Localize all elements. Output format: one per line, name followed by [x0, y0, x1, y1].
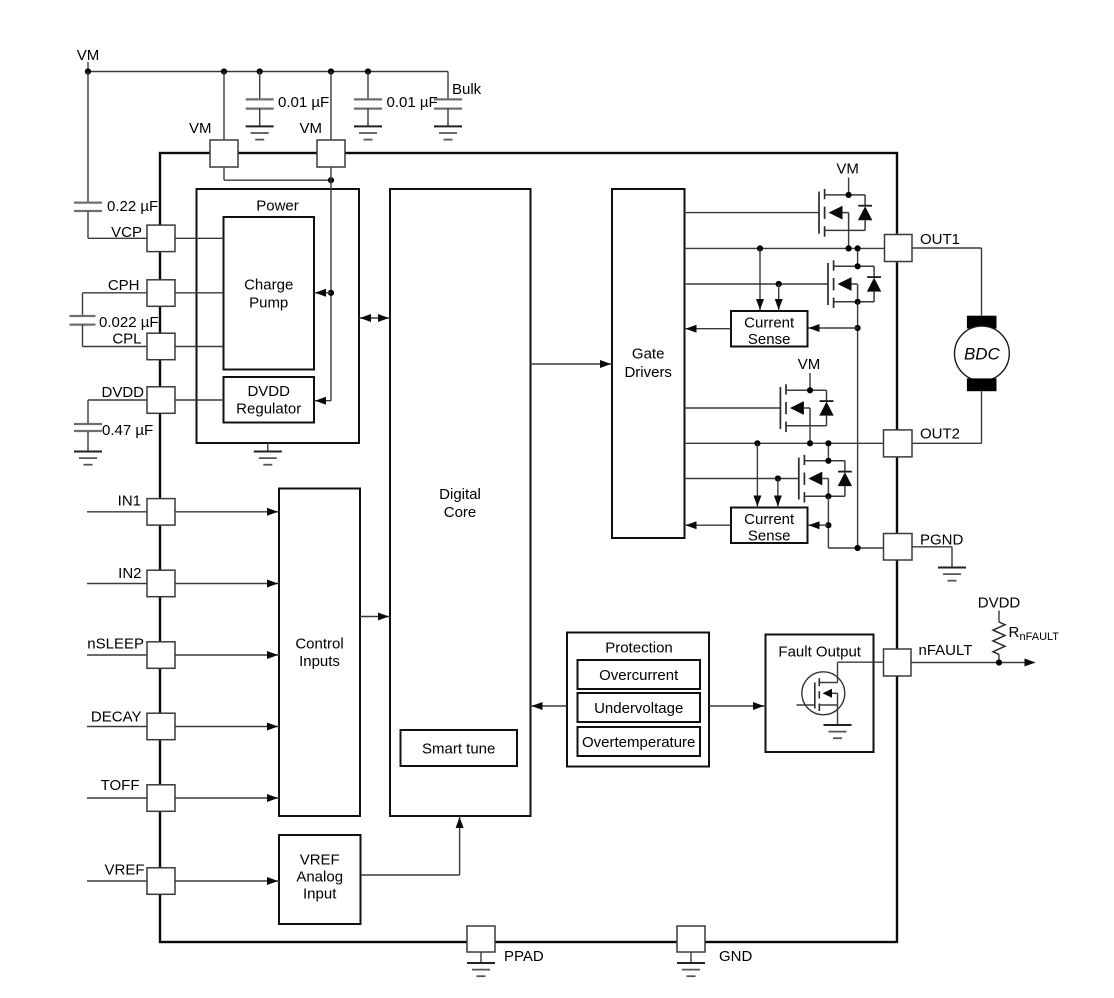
wire IN2 to Control block arrow: [175, 583, 279, 585]
wire VM stub to Q1 drain: [848, 178, 850, 195]
pin PPAD: [467, 926, 495, 952]
junction Q4 drain: [825, 458, 831, 464]
pin VCP: [147, 225, 175, 252]
svg-text:0.01 µF: 0.01 µF: [387, 94, 438, 111]
svg-text:OUT1: OUT1: [920, 231, 960, 248]
block Power: [197, 189, 360, 443]
wire CPL external: [82, 325, 84, 347]
ground under Power block: [254, 452, 282, 465]
block Undervoltage: [578, 693, 701, 722]
capacitor C4 0.22 uF: [74, 203, 102, 211]
junction Q2 source: [855, 299, 861, 305]
wire nSLEEP external stub: [87, 654, 147, 656]
junction gate tap Q2: [776, 281, 782, 287]
wire OUT2 net: [685, 442, 884, 444]
wire VM label stub: [87, 62, 89, 72]
svg-text:VM: VM: [836, 160, 859, 177]
capacitor C1 0.01 uF lead: [259, 72, 261, 100]
capacitor C3 bulk lead: [447, 72, 449, 100]
junction gate tap Q4: [775, 475, 781, 481]
wire + arrow into DVDD Regulator: [314, 400, 331, 402]
capacitor C6 0.47 uF: [74, 424, 102, 431]
wire PGND net: [828, 547, 883, 549]
block VREF Analog Input: [279, 835, 361, 924]
wire Q1 source to OUT1: [848, 230, 850, 248]
block Current Sense 2: [731, 508, 808, 544]
svg-text:Sense: Sense: [748, 528, 791, 545]
wire top VM rail: [88, 71, 448, 73]
svg-text:VCP: VCP: [111, 224, 142, 241]
svg-text:nFAULT: nFAULT: [1020, 631, 1060, 643]
capacitor C3 bulk: [434, 99, 462, 108]
wire DigitalCore to GateDrivers arrow: [531, 363, 613, 365]
svg-text:Control: Control: [295, 636, 343, 653]
wire DVDD pin to DVDD Regulator: [175, 399, 224, 401]
wire gate drive low-side Q2: [685, 283, 829, 285]
wire OUT1 to motor: [912, 247, 982, 249]
svg-text:GND: GND: [719, 948, 753, 965]
junction at x=224: [221, 68, 227, 74]
wire Power-DigitalCore bidirectional arrow: [359, 317, 390, 319]
wire gate tap to Current Sense 1 arrow: [778, 284, 780, 311]
pin VREF: [147, 868, 175, 895]
wire tap to Current Sense 2 arrow: [808, 524, 829, 526]
svg-text:Overcurrent: Overcurrent: [599, 667, 679, 684]
svg-text:Fault Output: Fault Output: [778, 644, 861, 661]
transistor Q1 (high-side OUT1): [819, 189, 872, 237]
wire C4 to VCP: [87, 211, 89, 238]
ground under PPAD: [467, 963, 495, 976]
wire VCP pin to Charge Pump: [175, 237, 224, 239]
pin OUT1: [885, 235, 913, 262]
block Digital Core: [390, 189, 531, 816]
wire motor to OUT2: [981, 391, 983, 443]
svg-text:Gate: Gate: [632, 346, 665, 363]
transistor Q5 (fault output, in circle): [797, 672, 845, 715]
svg-text:IN2: IN2: [118, 565, 141, 582]
pin TOFF: [147, 785, 175, 812]
block Gate Drivers: [612, 189, 685, 538]
svg-text:DVDD: DVDD: [247, 383, 290, 400]
svg-text:PPAD: PPAD: [504, 948, 544, 965]
pin CPH: [147, 280, 175, 307]
wire Protection to FaultOutput arrow: [709, 705, 766, 707]
svg-text:Regulator: Regulator: [236, 401, 301, 418]
junction OUT2 sense tap: [754, 440, 760, 446]
wire VM down left side: [87, 72, 89, 203]
capacitor C2 0.01 uF lead: [367, 72, 369, 100]
svg-text:Smart tune: Smart tune: [422, 741, 495, 758]
capacitor C2 0.01 uF: [354, 99, 382, 108]
wire Current Sense 1 to Gate Drivers arrow: [685, 328, 732, 330]
svg-text:0.022 µF: 0.022 µF: [99, 314, 159, 331]
junction VM rail left: [85, 68, 91, 74]
svg-text:VREF: VREF: [104, 862, 144, 879]
wire PPAD ground stem: [480, 952, 482, 963]
wire Power block ground stem: [267, 443, 269, 452]
svg-text:DVDD: DVDD: [978, 595, 1021, 612]
pin CPL: [147, 333, 175, 360]
svg-text:IN1: IN1: [118, 493, 141, 510]
wire gate tap Q4 to Current Sense 2 arrow: [777, 479, 779, 508]
block Fault Output: [766, 635, 874, 753]
pin IN1: [147, 499, 175, 525]
wire GND ground stem: [690, 952, 692, 963]
wire IN1 to Control block arrow: [175, 511, 279, 513]
svg-text:VREF: VREF: [300, 852, 340, 869]
svg-text:Current: Current: [744, 511, 795, 528]
wire TOFF to Control block arrow: [175, 797, 279, 799]
svg-text:0.22 µF: 0.22 µF: [107, 198, 158, 215]
wire VM pin1 to VM pin2 jog: [223, 167, 225, 180]
wire rail to VM pin 1: [223, 72, 225, 141]
pin VM 1: [210, 140, 238, 167]
wire nFAULT external arrow: [911, 662, 1035, 664]
wire gate drive low-side Q4: [685, 478, 799, 480]
wire C1 to ground: [259, 109, 261, 127]
pin IN2: [147, 570, 175, 597]
transistor Q3 (high-side OUT2): [780, 384, 833, 432]
junction Q2 drain top: [855, 245, 861, 251]
wire DECAY external stub: [87, 726, 147, 728]
junction Q2 drain: [855, 263, 861, 269]
svg-text:Input: Input: [303, 886, 337, 903]
svg-text:Sense: Sense: [748, 331, 791, 348]
junction Q4 source: [825, 493, 831, 499]
chip outline (device boundary): [160, 153, 897, 942]
svg-text:Protection: Protection: [605, 640, 673, 657]
wire Protection to DigitalCore arrow: [531, 705, 568, 707]
block Smart tune: [401, 730, 518, 766]
junction at x=331: [328, 68, 334, 74]
block Charge Pump: [224, 217, 315, 370]
ground under GND pin: [677, 963, 705, 976]
svg-text:Pump: Pump: [249, 295, 288, 312]
pin nSLEEP: [147, 642, 175, 669]
wire OUT1 net: [685, 247, 885, 249]
pin DECAY: [147, 713, 175, 740]
ground under Q5: [824, 725, 852, 738]
motor M1 BDC body: [955, 326, 1010, 381]
wire OUT2 to Q4 drain: [827, 443, 829, 461]
pin PGND: [884, 534, 913, 561]
wire IN1 external stub: [87, 511, 147, 513]
junction Q1 source at OUT1: [846, 245, 852, 251]
wire VM stub to Q3 drain: [809, 373, 811, 390]
junction at x=259.7: [257, 68, 263, 74]
ground under C3: [434, 126, 462, 139]
svg-text:nFAULT: nFAULT: [919, 642, 973, 659]
svg-text:Inputs: Inputs: [299, 653, 340, 670]
wire TOFF external stub: [87, 797, 147, 799]
junction Q4 current sense tap: [825, 522, 831, 528]
ground under C1: [246, 126, 274, 139]
ground at PGND: [938, 568, 966, 581]
svg-text:TOFF: TOFF: [101, 777, 140, 794]
wire OUT1 to Q2 drain: [857, 248, 859, 266]
resistor R_nFAULT: [993, 622, 1005, 654]
svg-text:DVDD: DVDD: [101, 384, 144, 401]
svg-text:OUT2: OUT2: [920, 426, 960, 443]
block Control Inputs: [279, 489, 360, 817]
svg-text:nSLEEP: nSLEEP: [87, 636, 144, 653]
junction VM feed to Charge Pump: [328, 290, 334, 296]
wire VREF to Control block arrow: [175, 880, 279, 882]
wire gate drive high-side Q3: [685, 407, 781, 409]
wire CPH pin to Charge Pump: [175, 292, 224, 294]
junction Q3 source at OUT2: [807, 440, 813, 446]
junction at x=368: [365, 68, 371, 74]
pin OUT2: [884, 430, 913, 457]
wire OUT2 tap to Current Sense 2 arrow: [756, 443, 758, 507]
wire tap to Current Sense 1 arrow: [808, 327, 858, 329]
wire DECAY to Control block arrow: [175, 726, 279, 728]
block Overtemperature: [578, 727, 701, 756]
wire VREF box to DigitalCore arrow: [361, 874, 460, 876]
wire IN2 external stub: [87, 583, 147, 585]
svg-text:0.47 µF: 0.47 µF: [102, 422, 153, 439]
svg-text:VM: VM: [300, 120, 323, 137]
wire C2 to ground: [367, 109, 369, 127]
ground under C2: [354, 126, 382, 139]
svg-text:0.01 µF: 0.01 µF: [278, 94, 329, 111]
ground under C6: [74, 452, 102, 465]
svg-text:DECAY: DECAY: [91, 709, 142, 726]
svg-text:VM: VM: [77, 47, 100, 64]
junction VM jog: [328, 177, 334, 183]
pin VM 2: [317, 140, 345, 167]
svg-text:Charge: Charge: [244, 277, 293, 294]
junction PGND net: [855, 545, 861, 551]
svg-text:Undervoltage: Undervoltage: [594, 700, 683, 717]
junction Q1 drain: [846, 192, 852, 198]
wire C6 to ground: [87, 432, 89, 452]
svg-text:R: R: [1009, 624, 1020, 641]
capacitor C5 0.022 uF: [70, 316, 96, 325]
wire DVDD stub to resistor: [998, 611, 1000, 623]
junction Q3 drain: [807, 387, 813, 393]
wire gate drive high-side Q1: [685, 212, 820, 214]
wire Q2 source down to PGND net: [857, 302, 859, 548]
wire Q4 source down: [827, 496, 829, 548]
svg-text:CPL: CPL: [112, 331, 141, 348]
svg-text:Current: Current: [744, 315, 795, 332]
wire VM pin2 down into Power: [330, 167, 332, 400]
wire CPH external: [83, 292, 148, 294]
block Overcurrent: [578, 660, 701, 689]
svg-text:Digital: Digital: [439, 486, 481, 503]
svg-text:VM: VM: [798, 356, 821, 373]
wire resistor to nFAULT net: [998, 654, 1000, 662]
wire C3 to ground: [447, 109, 449, 127]
wire VREF external stub: [87, 880, 147, 882]
motor brush bottom (black pad): [967, 378, 997, 391]
wire Q5 source to ground: [837, 705, 839, 725]
junction nFAULT pull-up: [996, 659, 1002, 665]
svg-text:VM: VM: [189, 120, 212, 137]
svg-text:BDC: BDC: [964, 345, 1001, 364]
wire PGND to ground: [912, 546, 952, 548]
wire nSLEEP to Control block arrow: [175, 654, 279, 656]
wire DVDD external: [88, 399, 147, 401]
svg-text:Overtemperature: Overtemperature: [582, 734, 695, 751]
junction Q4 drain top: [825, 440, 831, 446]
wire Current Sense 2 to Gate Drivers arrow: [685, 524, 732, 526]
wire rail to VM pin 2: [330, 72, 332, 141]
svg-text:Analog: Analog: [296, 869, 343, 886]
svg-text:Power: Power: [256, 198, 299, 215]
wire FaultOutput drain to nFAULT pin: [837, 662, 839, 682]
wire Q3 source to OUT2: [809, 426, 811, 444]
svg-text:Core: Core: [444, 504, 477, 521]
wire CPL pin to Charge Pump: [175, 346, 224, 348]
svg-text:Drivers: Drivers: [624, 364, 672, 381]
junction OUT1 sense tap: [757, 245, 763, 251]
wire + arrow into Charge Pump: [314, 292, 331, 294]
junction Q2 current sense tap: [855, 325, 861, 331]
block Protection: [567, 633, 709, 767]
svg-text:Bulk: Bulk: [452, 81, 482, 98]
transistor Q2 (low-side OUT1): [828, 260, 881, 308]
wire ControlInputs to DigitalCore arrow: [360, 616, 390, 618]
wire OUT1 tap to Current Sense 1 arrow: [759, 248, 761, 311]
block Current Sense 1: [731, 311, 808, 347]
svg-text:PGND: PGND: [920, 532, 964, 549]
motor brush top (black pad): [967, 316, 997, 329]
pin DVDD: [147, 387, 175, 414]
pin GND: [677, 926, 705, 952]
pin nFAULT: [884, 649, 912, 676]
svg-text:CPH: CPH: [108, 277, 140, 294]
capacitor C1 0.01 uF: [246, 99, 274, 108]
block DVDD Regulator: [224, 377, 315, 423]
transistor Q4 (low-side OUT2): [799, 455, 852, 503]
